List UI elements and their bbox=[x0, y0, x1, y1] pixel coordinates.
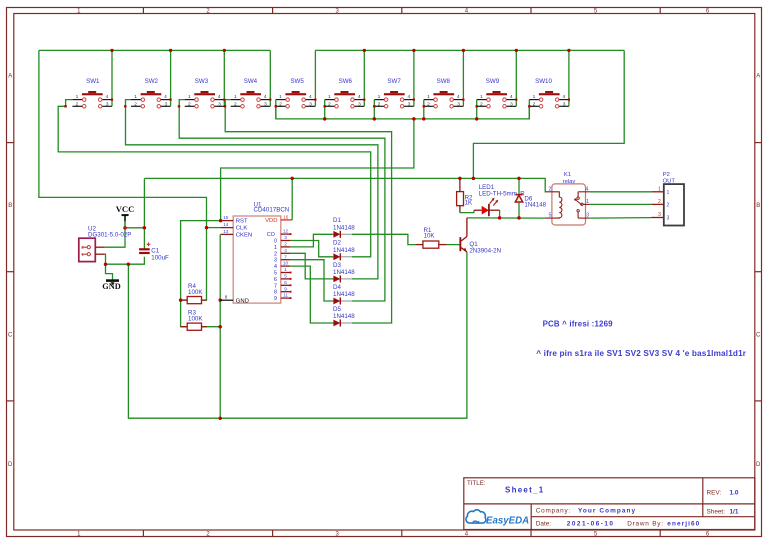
svg-text:14: 14 bbox=[223, 222, 229, 227]
svg-text:3: 3 bbox=[284, 235, 287, 240]
svg-text:5: 5 bbox=[274, 271, 277, 277]
svg-text:D: D bbox=[8, 462, 13, 468]
svg-text:2: 2 bbox=[533, 101, 536, 107]
svg-text:GND: GND bbox=[102, 282, 120, 291]
svg-text:12: 12 bbox=[283, 229, 289, 234]
svg-text:SW1: SW1 bbox=[86, 78, 100, 85]
wire SW2 pin2 staircase to D3 cathode bbox=[126, 100, 378, 279]
diode D5 1N4148 bbox=[333, 306, 356, 327]
capacitor C1 100uF bbox=[139, 242, 169, 261]
svg-text:1N4148: 1N4148 bbox=[333, 269, 355, 276]
svg-text:100K: 100K bbox=[188, 316, 203, 323]
svg-text:SW3: SW3 bbox=[195, 78, 209, 85]
wire CLK pin stub bbox=[207, 227, 221, 229]
IC U1 CD4017BCN bbox=[233, 202, 289, 304]
connector P2 OUT bbox=[651, 172, 684, 225]
svg-text:4: 4 bbox=[358, 94, 361, 100]
svg-text:3: 3 bbox=[264, 101, 267, 107]
svg-text:4: 4 bbox=[264, 94, 267, 100]
connector U2 DG301-5.0-02P bbox=[79, 225, 132, 261]
diode D1 1N4148 bbox=[333, 217, 356, 238]
svg-text:Date:: Date: bbox=[536, 520, 551, 527]
svg-text:1: 1 bbox=[274, 245, 277, 251]
wire R2 bottom to LED1 anode bbox=[460, 210, 474, 212]
svg-text:11: 11 bbox=[283, 293, 288, 298]
svg-text:15: 15 bbox=[223, 215, 229, 220]
svg-text:SW7: SW7 bbox=[387, 78, 401, 85]
svg-text:A: A bbox=[8, 74, 12, 80]
svg-text:1: 1 bbox=[533, 94, 536, 100]
svg-text:3: 3 bbox=[563, 101, 566, 107]
svg-text:2: 2 bbox=[480, 101, 483, 107]
switch SW10 bbox=[528, 49, 571, 119]
svg-text:2N3904-2N: 2N3904-2N bbox=[469, 247, 501, 254]
svg-text:SW9: SW9 bbox=[486, 78, 500, 85]
svg-text:1N4148: 1N4148 bbox=[333, 291, 355, 298]
border row labels bbox=[8, 74, 761, 469]
svg-text:4: 4 bbox=[274, 264, 277, 270]
U1 pin 3 Q0 bbox=[274, 235, 290, 244]
svg-text:4: 4 bbox=[510, 94, 513, 100]
svg-text:PCB ^ ifresi :1269: PCB ^ ifresi :1269 bbox=[543, 320, 614, 329]
svg-text:enerji60: enerji60 bbox=[667, 520, 700, 527]
svg-text:6: 6 bbox=[284, 280, 287, 285]
wire R3 right lead bbox=[201, 326, 220, 328]
wire VCC right drop to VCC line bbox=[473, 50, 624, 178]
U1 pin 6 Q7 bbox=[274, 280, 292, 289]
svg-text:P2: P2 bbox=[663, 172, 670, 178]
svg-text:0: 0 bbox=[274, 239, 277, 245]
wire GND bottom rail bbox=[128, 252, 467, 418]
svg-text:3: 3 bbox=[510, 101, 513, 107]
transistor Q1 2N3904-2N bbox=[459, 218, 501, 254]
wire RST to R4/R3 left leads bbox=[181, 221, 221, 327]
U1 pin 9 Q8 bbox=[274, 286, 292, 295]
svg-text:4: 4 bbox=[586, 186, 589, 192]
svg-text:TITLE:: TITLE: bbox=[467, 480, 486, 487]
svg-text:D3: D3 bbox=[333, 262, 341, 269]
svg-text:3: 3 bbox=[667, 216, 670, 222]
diode D6 1N4148 bbox=[515, 195, 546, 209]
U1 pin 1 Q5 bbox=[274, 267, 292, 276]
switch SW4 bbox=[224, 50, 272, 108]
svg-text:1: 1 bbox=[134, 94, 137, 100]
svg-text:VDD: VDD bbox=[265, 218, 277, 224]
svg-text:7: 7 bbox=[284, 254, 287, 259]
wire relay pin 3 to P2 pin 3 bbox=[590, 217, 652, 220]
svg-text:2: 2 bbox=[274, 251, 277, 257]
resistor R3 100K bbox=[181, 310, 207, 331]
wire GND from U2 pin 2 bbox=[105, 254, 145, 264]
svg-text:1: 1 bbox=[378, 94, 381, 100]
svg-text:13: 13 bbox=[223, 229, 229, 234]
svg-text:10: 10 bbox=[283, 261, 289, 266]
svg-text:CLK: CLK bbox=[236, 226, 248, 232]
switch SW6 bbox=[323, 49, 366, 121]
svg-text:1: 1 bbox=[279, 94, 282, 100]
wire relay pin 4 to P2 pin 1 bbox=[590, 191, 652, 193]
wire VDD branch to U1 pin 16 bbox=[291, 178, 293, 220]
svg-text:A: A bbox=[756, 74, 760, 80]
svg-text:Company:: Company: bbox=[536, 507, 571, 514]
wire VCC to C1 top bbox=[143, 178, 145, 248]
wire LED1 cathode drop bbox=[499, 210, 501, 218]
svg-text:C: C bbox=[8, 333, 13, 339]
svg-text:1N4148: 1N4148 bbox=[524, 202, 546, 209]
svg-text:4: 4 bbox=[284, 248, 287, 253]
U1 pin 13 CKEN bbox=[221, 229, 253, 239]
svg-text:9: 9 bbox=[274, 296, 277, 302]
svg-text:CO: CO bbox=[267, 232, 275, 238]
svg-text:8: 8 bbox=[225, 294, 228, 299]
switch SW3 bbox=[178, 49, 226, 108]
svg-text:VCC: VCC bbox=[116, 204, 135, 214]
svg-text:C1: C1 bbox=[151, 247, 159, 254]
svg-text:K1: K1 bbox=[564, 172, 571, 178]
svg-text:EasyEDA: EasyEDA bbox=[486, 515, 529, 526]
svg-text:Sheet_1: Sheet_1 bbox=[505, 486, 544, 495]
svg-text:2: 2 bbox=[427, 101, 430, 107]
wire SW1 pin2 junction dot bbox=[64, 105, 66, 107]
wire U1 Q3 to D4 anode bbox=[290, 260, 332, 301]
svg-text:GND: GND bbox=[236, 298, 249, 304]
svg-text:1N4148: 1N4148 bbox=[333, 247, 355, 254]
svg-text:2: 2 bbox=[279, 101, 282, 107]
U1 pin 14 CLK bbox=[221, 222, 248, 232]
svg-text:SW8: SW8 bbox=[437, 78, 451, 85]
U1 pin 5 Q6 bbox=[274, 274, 292, 283]
svg-text:Your Company: Your Company bbox=[578, 507, 636, 514]
svg-text:2021-06-10: 2021-06-10 bbox=[567, 520, 615, 527]
svg-text:5: 5 bbox=[549, 213, 552, 219]
svg-text:3: 3 bbox=[658, 212, 661, 218]
wire VCC distribution line bbox=[144, 178, 546, 191]
relay K1 bbox=[546, 172, 590, 225]
wire U1 Q2 to D3 anode bbox=[290, 253, 332, 279]
svg-text:2: 2 bbox=[328, 101, 331, 107]
svg-text:2: 2 bbox=[378, 101, 381, 107]
svg-text:7: 7 bbox=[274, 283, 277, 289]
svg-text:2: 2 bbox=[188, 101, 191, 107]
svg-text:16: 16 bbox=[283, 214, 289, 219]
svg-text:1: 1 bbox=[427, 94, 430, 100]
ground symbol GND bbox=[102, 281, 120, 292]
svg-text:CKEN: CKEN bbox=[236, 233, 252, 239]
svg-text:D2: D2 bbox=[333, 240, 341, 247]
svg-text:2: 2 bbox=[76, 101, 79, 107]
wire relay pin 1 to P2 pin 2 bbox=[590, 203, 652, 205]
wire VCC row U2/C1 bbox=[125, 227, 144, 229]
wire Q1 collector row to relay pin 5 bbox=[467, 217, 546, 219]
svg-text:Sheet:: Sheet: bbox=[707, 508, 726, 515]
svg-text:1: 1 bbox=[76, 94, 79, 100]
svg-text:3: 3 bbox=[164, 101, 167, 107]
switch SW2 bbox=[124, 49, 172, 108]
svg-text:B: B bbox=[756, 203, 760, 209]
switch SW5 bbox=[275, 50, 317, 119]
svg-text:3: 3 bbox=[457, 101, 460, 107]
svg-text:10K: 10K bbox=[424, 233, 436, 240]
wire SW1 pin2 staircase to D2 cathode bbox=[58, 100, 371, 257]
svg-text:4: 4 bbox=[407, 94, 410, 100]
title block texts bbox=[467, 480, 739, 527]
switch SW7 bbox=[373, 49, 416, 121]
svg-text:D1: D1 bbox=[333, 217, 341, 224]
svg-text:1/1: 1/1 bbox=[730, 508, 739, 515]
svg-text:REV:: REV: bbox=[707, 489, 722, 496]
U1 pin 10 Q4 bbox=[274, 261, 290, 270]
wire D1 cathode to R1 bbox=[352, 234, 415, 244]
wire RST rail (SW5-SW10 pin2 bus) bbox=[276, 106, 529, 119]
U1 pin 8 GND bbox=[220, 294, 249, 304]
svg-text:2: 2 bbox=[658, 199, 661, 205]
svg-text:SW10: SW10 bbox=[535, 78, 552, 85]
diode D3 1N4148 bbox=[333, 262, 356, 283]
U1 pin 12 CO bbox=[267, 229, 292, 238]
svg-text:3: 3 bbox=[309, 101, 312, 107]
U1 pin 7 Q3 bbox=[274, 254, 290, 263]
wire CLK left drop to U1 CLK pin and R4 bbox=[39, 50, 207, 300]
svg-text:D: D bbox=[756, 462, 761, 468]
svg-text:1N4148: 1N4148 bbox=[333, 313, 355, 320]
svg-text:Drawn By:: Drawn By: bbox=[627, 520, 664, 527]
svg-text:9: 9 bbox=[284, 286, 287, 291]
svg-text:2: 2 bbox=[667, 202, 670, 208]
U1 pin 16 VDD bbox=[265, 214, 292, 224]
svg-text:4: 4 bbox=[164, 94, 167, 100]
wire D6 bottom bbox=[518, 203, 520, 218]
svg-text:B: B bbox=[8, 203, 12, 209]
svg-text:3: 3 bbox=[274, 258, 277, 264]
svg-text:1: 1 bbox=[586, 199, 589, 205]
wire U1 Q0 to D2 anode bbox=[290, 241, 332, 257]
wire U1 Q4 to D5 anode bbox=[290, 266, 332, 323]
svg-text:D4: D4 bbox=[333, 284, 341, 291]
svg-text:1: 1 bbox=[234, 94, 237, 100]
svg-text:3: 3 bbox=[586, 213, 589, 219]
diode D4 1N4148 bbox=[333, 284, 356, 305]
svg-text:4: 4 bbox=[309, 94, 312, 100]
svg-text:RST: RST bbox=[236, 219, 248, 225]
svg-text:4: 4 bbox=[106, 94, 109, 100]
svg-text:1N4148: 1N4148 bbox=[333, 224, 355, 231]
wire U1 Q1 to D1 anode bbox=[290, 234, 332, 247]
resistor R2 1K bbox=[457, 178, 473, 212]
svg-text:6: 6 bbox=[274, 277, 277, 283]
wire R4 left lead connection bbox=[181, 299, 187, 301]
svg-text:2: 2 bbox=[549, 186, 552, 192]
wire CLK rail segment (SW1-SW4 top rail) bbox=[39, 49, 270, 51]
wire D6 top bbox=[518, 178, 520, 193]
svg-text:3: 3 bbox=[358, 101, 361, 107]
svg-text:2: 2 bbox=[234, 101, 237, 107]
U1 pin 2 Q1 bbox=[274, 242, 290, 251]
wire SW3 pin2 staircase to D4 cathode bbox=[179, 100, 385, 301]
switch SW1 bbox=[72, 49, 113, 108]
wire VCC symbol to U2 pin 1 bbox=[105, 216, 125, 247]
EasyEDA logo bbox=[466, 510, 529, 527]
svg-text:8: 8 bbox=[274, 290, 277, 296]
svg-text:1.0: 1.0 bbox=[730, 489, 739, 496]
svg-text:4: 4 bbox=[562, 94, 565, 100]
wire to GND symbol bbox=[106, 264, 113, 279]
svg-text:1: 1 bbox=[667, 190, 670, 196]
LED LED1 LED-TH-5mm_R bbox=[474, 184, 525, 216]
U1 pin 4 Q2 bbox=[274, 248, 290, 257]
svg-text:^ ifre pin s1ra ile SV1 SV2 SV: ^ ifre pin s1ra ile SV1 SV2 SV3 SV 4 'e … bbox=[536, 349, 746, 358]
resistor R1 10K bbox=[415, 227, 446, 248]
svg-text:D5: D5 bbox=[333, 306, 341, 313]
svg-text:4: 4 bbox=[218, 94, 221, 100]
svg-text:1: 1 bbox=[188, 94, 191, 100]
svg-text:3: 3 bbox=[218, 101, 221, 107]
svg-text:CD4017BCN: CD4017BCN bbox=[254, 206, 290, 213]
svg-text:C: C bbox=[756, 333, 761, 339]
svg-text:1: 1 bbox=[328, 94, 331, 100]
svg-text:100K: 100K bbox=[188, 289, 203, 296]
svg-text:100uF: 100uF bbox=[151, 255, 169, 262]
diode D2 1N4148 bbox=[333, 240, 356, 261]
svg-text:4: 4 bbox=[457, 94, 460, 100]
svg-text:2: 2 bbox=[134, 101, 137, 107]
svg-text:3: 3 bbox=[106, 101, 109, 107]
svg-text:1: 1 bbox=[480, 94, 483, 100]
U1 pin 15 RST bbox=[221, 215, 248, 225]
switch SW9 bbox=[475, 49, 518, 121]
resistor R4 100K bbox=[181, 283, 207, 304]
svg-text:SW2: SW2 bbox=[145, 78, 159, 85]
wire R1 to Q1 base bbox=[447, 244, 460, 246]
VCC power symbol bbox=[116, 204, 135, 228]
svg-text:1: 1 bbox=[658, 186, 661, 192]
svg-text:2: 2 bbox=[284, 242, 287, 247]
switch SW8 bbox=[422, 49, 465, 121]
wire CKEN/GND/R3 vertical bbox=[219, 234, 221, 418]
svg-text:1K: 1K bbox=[465, 200, 473, 207]
svg-text:3: 3 bbox=[408, 101, 411, 107]
wire RST drop to U1 RST pin bbox=[221, 119, 414, 221]
svg-text:SW5: SW5 bbox=[290, 78, 304, 85]
wire VCC rail segment (SW5-SW10 top rail) bbox=[315, 49, 624, 51]
wire SW4 pin2 staircase to D5 cathode bbox=[225, 100, 391, 323]
svg-text:1: 1 bbox=[284, 267, 287, 272]
title block bbox=[464, 478, 755, 530]
svg-text:SW4: SW4 bbox=[244, 78, 258, 85]
U1 pin 11 Q9 bbox=[274, 293, 292, 302]
svg-text:SW6: SW6 bbox=[339, 78, 353, 85]
svg-text:5: 5 bbox=[284, 274, 287, 279]
